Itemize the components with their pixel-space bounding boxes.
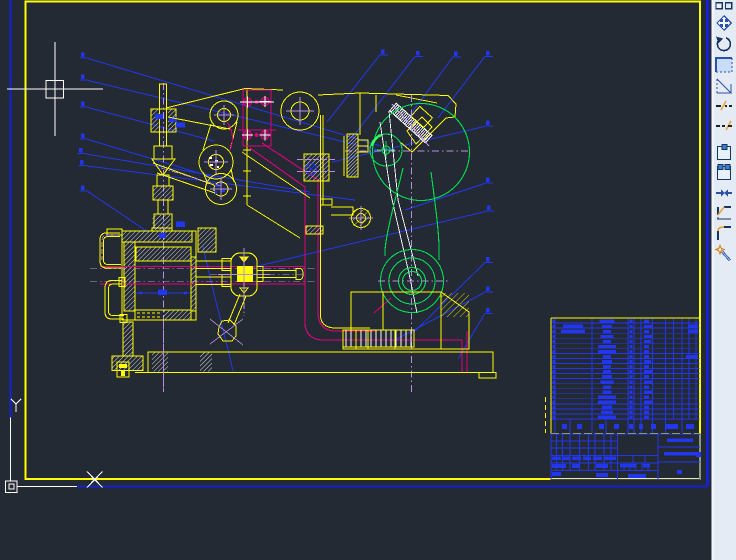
cylinder centerline 1 bbox=[90, 268, 315, 270]
bolt dot top bbox=[255, 100, 258, 103]
leader 5 bbox=[78, 148, 311, 192]
left centerline v bbox=[163, 322, 165, 392]
ball centerline 1 bbox=[210, 319, 243, 345]
pin bracket bbox=[331, 207, 353, 215]
valve core bbox=[237, 266, 253, 282]
toolbar icon join bbox=[716, 190, 732, 197]
pedestal hatch band bbox=[343, 330, 414, 347]
pivot bracket hatch bbox=[305, 155, 329, 181]
leader 16 bbox=[393, 287, 493, 342]
pulley C center bbox=[204, 161, 228, 163]
cylinder dim line bbox=[136, 292, 190, 294]
toolbar icon wand bbox=[716, 245, 731, 261]
big end centerline bbox=[378, 280, 448, 282]
flywheel bbox=[373, 104, 470, 201]
rod stub lower bbox=[196, 277, 231, 285]
bolt dot bottom bbox=[255, 133, 258, 136]
column yellow bottom curve bbox=[321, 308, 371, 328]
pipe upper outer bbox=[100, 233, 121, 268]
base foot bolt bbox=[117, 362, 129, 377]
blue tag b bbox=[169, 117, 177, 122]
arm column right edge bbox=[246, 89, 248, 205]
spindle rod seg bbox=[157, 175, 169, 186]
blue mark right edge bbox=[696, 452, 701, 457]
viewport frame bottom edge bbox=[77, 486, 707, 488]
belt line 2 bbox=[389, 111, 418, 276]
column crimson base stub bbox=[466, 331, 468, 372]
spindle collar 3 hatch bbox=[154, 187, 173, 200]
link C-D left bbox=[203, 172, 208, 184]
pivot centerline 1 bbox=[297, 159, 335, 161]
pipe upper flange bbox=[107, 229, 122, 235]
bolt plate white tick bbox=[240, 101, 274, 103]
screw axis centerline bbox=[392, 104, 429, 146]
motor left edge bbox=[359, 93, 361, 135]
cylinder top plate bbox=[122, 231, 192, 242]
toolbar icon rotate bbox=[716, 37, 730, 51]
bolt 1 bbox=[244, 98, 252, 106]
cylinder head band bbox=[136, 247, 191, 261]
leader 13 bbox=[405, 178, 493, 211]
crimson arc near pulleys bbox=[227, 122, 232, 150]
viewport frame left edge bbox=[10, 0, 12, 418]
pin circle outer bbox=[352, 209, 371, 228]
column edge yellow bbox=[320, 115, 322, 310]
blue tag cyl 1 bbox=[176, 222, 185, 228]
big end bore bbox=[399, 268, 426, 295]
cylinder bottom band bbox=[135, 310, 191, 320]
pin circle hatch bbox=[353, 210, 369, 226]
pin circle inner bbox=[357, 214, 366, 223]
title block grid bbox=[551, 434, 700, 480]
motor top bbox=[360, 93, 456, 137]
piston rod crimson 2 bbox=[100, 283, 305, 285]
bolt 3 bbox=[244, 131, 252, 139]
crosshair cursor bbox=[7, 42, 103, 136]
blue tag cyl 2 bbox=[159, 233, 166, 238]
base left foot hatch bbox=[112, 356, 143, 371]
crimson diag pedestal bbox=[374, 298, 391, 313]
big end pin bbox=[403, 272, 422, 291]
leader 4 bbox=[80, 134, 220, 180]
blue tag c bbox=[176, 123, 185, 128]
flywheel centerline h bbox=[345, 150, 470, 152]
viewport frame right edge bbox=[706, 0, 709, 487]
pivot centerline 2 bbox=[297, 171, 335, 173]
pulley B inner bbox=[218, 109, 231, 122]
belt pulley hub bbox=[382, 146, 390, 154]
bolt 4 bbox=[261, 131, 269, 139]
cylinder outline bbox=[122, 231, 196, 320]
pipe lower flange 2 bbox=[120, 315, 127, 323]
base plate bbox=[148, 352, 493, 373]
pulley D center bbox=[210, 188, 232, 190]
base bottom ext bbox=[135, 372, 493, 374]
machine centerline v bbox=[411, 95, 413, 392]
leader 9 bbox=[352, 51, 423, 138]
toolbar panel bbox=[712, 0, 736, 560]
toolbar icon viewports bbox=[716, 3, 732, 9]
shaft flange bbox=[257, 267, 263, 282]
pipe lower inner bbox=[109, 284, 125, 316]
bracket tab 2 bbox=[358, 146, 368, 152]
column foot hatch bbox=[306, 226, 323, 234]
pedestal bolt lines bbox=[355, 330, 357, 349]
cylinder right wall bbox=[191, 257, 196, 311]
spindle collar 1 hatch R bbox=[168, 110, 176, 132]
pendulum arm 2 bbox=[234, 296, 246, 325]
arm top edge 2 bbox=[245, 89, 283, 91]
pulley D outer bbox=[206, 174, 237, 205]
column yellow diagonal 2 bbox=[247, 205, 300, 238]
pin centerlines bbox=[349, 217, 373, 219]
spindle gland hatch bbox=[153, 215, 171, 230]
rod flange lower bbox=[222, 275, 231, 287]
column yellow diagonal bbox=[242, 152, 310, 198]
ball centerline 2 bbox=[210, 319, 243, 344]
clamp block bbox=[198, 228, 216, 252]
leader 12 bbox=[332, 121, 493, 163]
spindle collar 3 bbox=[153, 186, 173, 200]
leader 3 bbox=[80, 102, 215, 142]
pulley C hatchdots bbox=[209, 157, 219, 168]
pulley C inner bbox=[209, 155, 224, 170]
arm lower diag bbox=[168, 117, 230, 129]
bracket side bbox=[343, 136, 345, 176]
leader 10 bbox=[405, 52, 461, 123]
shaft tip bbox=[296, 269, 303, 280]
rod shank right bbox=[431, 172, 439, 260]
spindle collar 4 bbox=[154, 214, 172, 228]
pedestal step 2 bbox=[382, 292, 384, 330]
screw hatched bbox=[390, 103, 432, 143]
toolbar icon break point bbox=[716, 121, 732, 130]
spindle collar 1 bbox=[151, 109, 176, 132]
pulley C outer bbox=[199, 145, 233, 179]
pipe lower flange 1 bbox=[119, 278, 125, 287]
toolbar icon clipboard 2 bbox=[718, 165, 731, 180]
base stud hatches bbox=[152, 353, 168, 372]
pulley A center bbox=[286, 110, 314, 112]
link arm upper bbox=[153, 163, 214, 185]
belt line 1 bbox=[380, 122, 417, 313]
pulley B center bbox=[214, 114, 234, 116]
leader 8 bbox=[327, 50, 388, 123]
valve body bbox=[231, 253, 257, 296]
cylinder hidden lines bbox=[137, 312, 162, 314]
spindle centerline bbox=[163, 83, 165, 392]
rod shank left bbox=[385, 168, 403, 256]
pendulum arm 1 bbox=[228, 294, 240, 323]
motor wedge bbox=[400, 137, 427, 152]
pipe lower outer bbox=[105, 281, 124, 320]
cylinder left wall bbox=[124, 242, 135, 311]
leader 1 bbox=[80, 53, 382, 147]
arm top edge bbox=[166, 89, 245, 109]
valve centerline v bbox=[243, 248, 245, 316]
leader 15 bbox=[414, 257, 493, 332]
arm top edge 3 bbox=[318, 93, 360, 95]
toolbar icon clipboard 1 bbox=[718, 145, 731, 160]
bracket hatch band bbox=[347, 134, 358, 177]
leader 11 bbox=[438, 51, 493, 118]
pulley B outer bbox=[210, 101, 238, 129]
belt pulley bbox=[370, 134, 402, 166]
spindle funnel bbox=[152, 159, 175, 175]
leader 6 bbox=[79, 160, 356, 200]
spindle stem bbox=[152, 228, 172, 231]
leader spline bbox=[203, 246, 233, 371]
pulley D inner bbox=[214, 182, 228, 196]
link arm lower bbox=[157, 173, 215, 193]
valve arrow top bbox=[240, 257, 248, 262]
column crimson inner bbox=[262, 143, 376, 331]
big end outer bbox=[381, 250, 444, 313]
UCS icon bbox=[6, 399, 103, 493]
base right foot bbox=[479, 373, 496, 379]
belt pulley center bbox=[377, 149, 395, 151]
pipe upper centerline bbox=[102, 235, 118, 260]
pivot bracket bbox=[304, 154, 329, 181]
link B-C right bbox=[230, 122, 237, 150]
link C-D right bbox=[231, 169, 234, 182]
column crimson base stub2 bbox=[461, 340, 463, 372]
bolt 2 bbox=[261, 98, 269, 106]
bolt plate midline bbox=[238, 129, 276, 131]
leader 7 bbox=[80, 186, 149, 233]
spindle collar 1 rod lines bbox=[159, 109, 161, 132]
shaft top bbox=[257, 270, 296, 272]
pipe upper inner bbox=[104, 237, 122, 265]
bracket tab 1 bbox=[358, 140, 368, 146]
bolt plate bbox=[243, 90, 271, 146]
link B-C left bbox=[203, 124, 211, 150]
pulley A outer bbox=[281, 92, 319, 130]
belt pulley arc highlight bbox=[372, 135, 381, 146]
cylinder centerline 2 bbox=[90, 280, 315, 282]
pulley A inner bbox=[291, 102, 309, 120]
BOM table grid bbox=[546, 318, 701, 434]
leader 14 bbox=[250, 206, 494, 269]
link arm centerline bbox=[161, 168, 221, 186]
pedestal outline bbox=[343, 292, 469, 349]
toolbar icon break line bbox=[716, 101, 732, 110]
mount diamond bbox=[407, 117, 432, 144]
rod flange upper bbox=[222, 259, 231, 271]
toolbar icon zoom scale bbox=[717, 79, 731, 93]
title block text bbox=[552, 439, 697, 479]
clamp block hatch bbox=[199, 229, 216, 252]
pedestal hatch diag bbox=[441, 293, 469, 317]
pivot pin blue bbox=[306, 164, 317, 175]
pedestal step 3 bbox=[440, 292, 442, 349]
rod stub upper bbox=[196, 261, 231, 269]
valve cross bbox=[218, 274, 270, 276]
pulley D bluedots bbox=[214, 184, 225, 194]
column edge yellow 2 bbox=[322, 115, 324, 205]
pendulum ball bbox=[218, 320, 236, 341]
screw bracket bbox=[411, 106, 432, 127]
spindle collar 2 bbox=[154, 146, 172, 159]
shaft bottom bbox=[257, 277, 296, 279]
toolbar icon zoom window bbox=[716, 58, 732, 72]
spindle rod low bbox=[158, 200, 168, 214]
big end ring bbox=[389, 258, 435, 304]
leader 2 bbox=[80, 75, 384, 152]
blue tag a bbox=[155, 114, 163, 119]
leader 17 bbox=[458, 308, 493, 359]
pedestal step 1 bbox=[350, 292, 352, 330]
toolbar icon pan bbox=[716, 15, 732, 31]
valve arrow bottom bbox=[240, 288, 248, 293]
arm edge ticks bbox=[243, 149, 251, 151]
toolbar icon chamfer bbox=[717, 207, 731, 220]
spindle rod mid bbox=[160, 132, 167, 146]
toolbar icon fillet bbox=[718, 227, 731, 240]
base foot column bbox=[123, 322, 133, 356]
spindle rod top bbox=[160, 84, 167, 109]
sheet border frame bbox=[26, 2, 701, 480]
spindle collar 1 hatch L bbox=[152, 110, 159, 132]
column crimson outer bbox=[250, 148, 462, 340]
piston rod crimson 1 bbox=[100, 266, 305, 268]
BOM text bbox=[553, 320, 699, 429]
column step bbox=[320, 199, 332, 205]
shaft centerline bbox=[210, 273, 306, 275]
mount diag bbox=[396, 95, 437, 103]
cylinder bottom hatch bbox=[163, 311, 191, 320]
motor inner line bbox=[375, 95, 377, 112]
